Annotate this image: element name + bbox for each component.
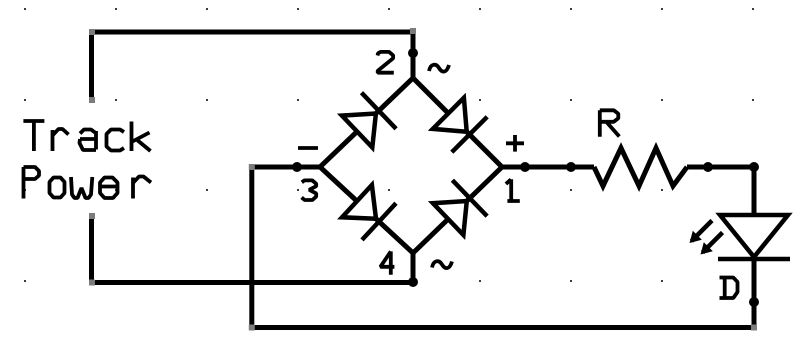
junction dot before resistor [566, 162, 576, 172]
wire bottom return to LED cathode [252, 325, 754, 330]
LED D cathode bar [718, 257, 790, 262]
LED D triangle (anode top) [720, 215, 788, 257]
wire bottom horizontal from track power to bridge pin 4 [92, 280, 414, 285]
diode bridge bottom-right (anode pin 4, cathode pin 1) [433, 180, 487, 235]
label - minus at pin 3 [298, 146, 318, 150]
label + at pin 1 [506, 135, 524, 152]
junction dot on pin 1 wire [520, 162, 530, 172]
grip at bottom-right corner [751, 325, 757, 331]
grip at top-left corner [89, 29, 95, 35]
wire from node 3 to corner [252, 165, 320, 170]
wire stem bridge pin 4 [411, 253, 416, 282]
grip at upper lead end [89, 97, 95, 103]
label Power [24, 167, 152, 199]
label R resistor [600, 110, 620, 137]
label 2 (bridge pin) [378, 52, 394, 73]
grip at node 3 corner [249, 164, 255, 170]
wire left lower track-power lead [89, 216, 94, 283]
junction dot on pin 3 wire [292, 162, 302, 172]
diode bridge top-left (anode pin 3, cathode pin 2) [342, 93, 396, 148]
wire top horizontal from track power to bridge pin 2 [92, 30, 414, 35]
label D LED [720, 278, 738, 299]
LED emission arrow upper [690, 221, 713, 244]
label 1 (bridge pin) [506, 179, 520, 202]
diode bridge top-right (anode pin 2, cathode pin 1) [433, 98, 487, 152]
label 4 (bridge pin) [380, 251, 394, 274]
label 3 (bridge pin) [302, 180, 317, 200]
wire vertical to LED anode [752, 167, 757, 213]
grip at lower lead top end [89, 213, 95, 219]
label ~ at pin 4 [432, 261, 452, 268]
wire from node 1 to resistor [502, 165, 594, 170]
resistor R zigzag [594, 148, 687, 186]
wire left upper track-power lead [89, 32, 94, 100]
grip at pin 2 wire end [410, 28, 416, 34]
grip at bottom-left corner [249, 325, 255, 331]
label Track [23, 121, 150, 151]
label ~ at pin 2 [429, 65, 449, 72]
junction dot below LED [749, 297, 759, 307]
junction dot on pin 4 stem [408, 277, 418, 287]
diode bridge bottom-left (anode pin 3, cathode pin 4) [342, 185, 396, 240]
wire vertical from LED cathode down [752, 259, 757, 328]
junction dot on pin 2 stem [408, 48, 418, 58]
bridge rectifier diamond [320, 78, 502, 253]
junction dot at LED corner [749, 162, 759, 172]
grip at lower lead corner [89, 280, 95, 286]
wire stem bridge pin 2 [411, 32, 416, 78]
wire vertical from node 3 corner down [249, 167, 254, 328]
LED emission arrow lower [701, 233, 723, 255]
junction dot after resistor [703, 162, 713, 172]
wire from resistor to LED corner [687, 165, 754, 170]
